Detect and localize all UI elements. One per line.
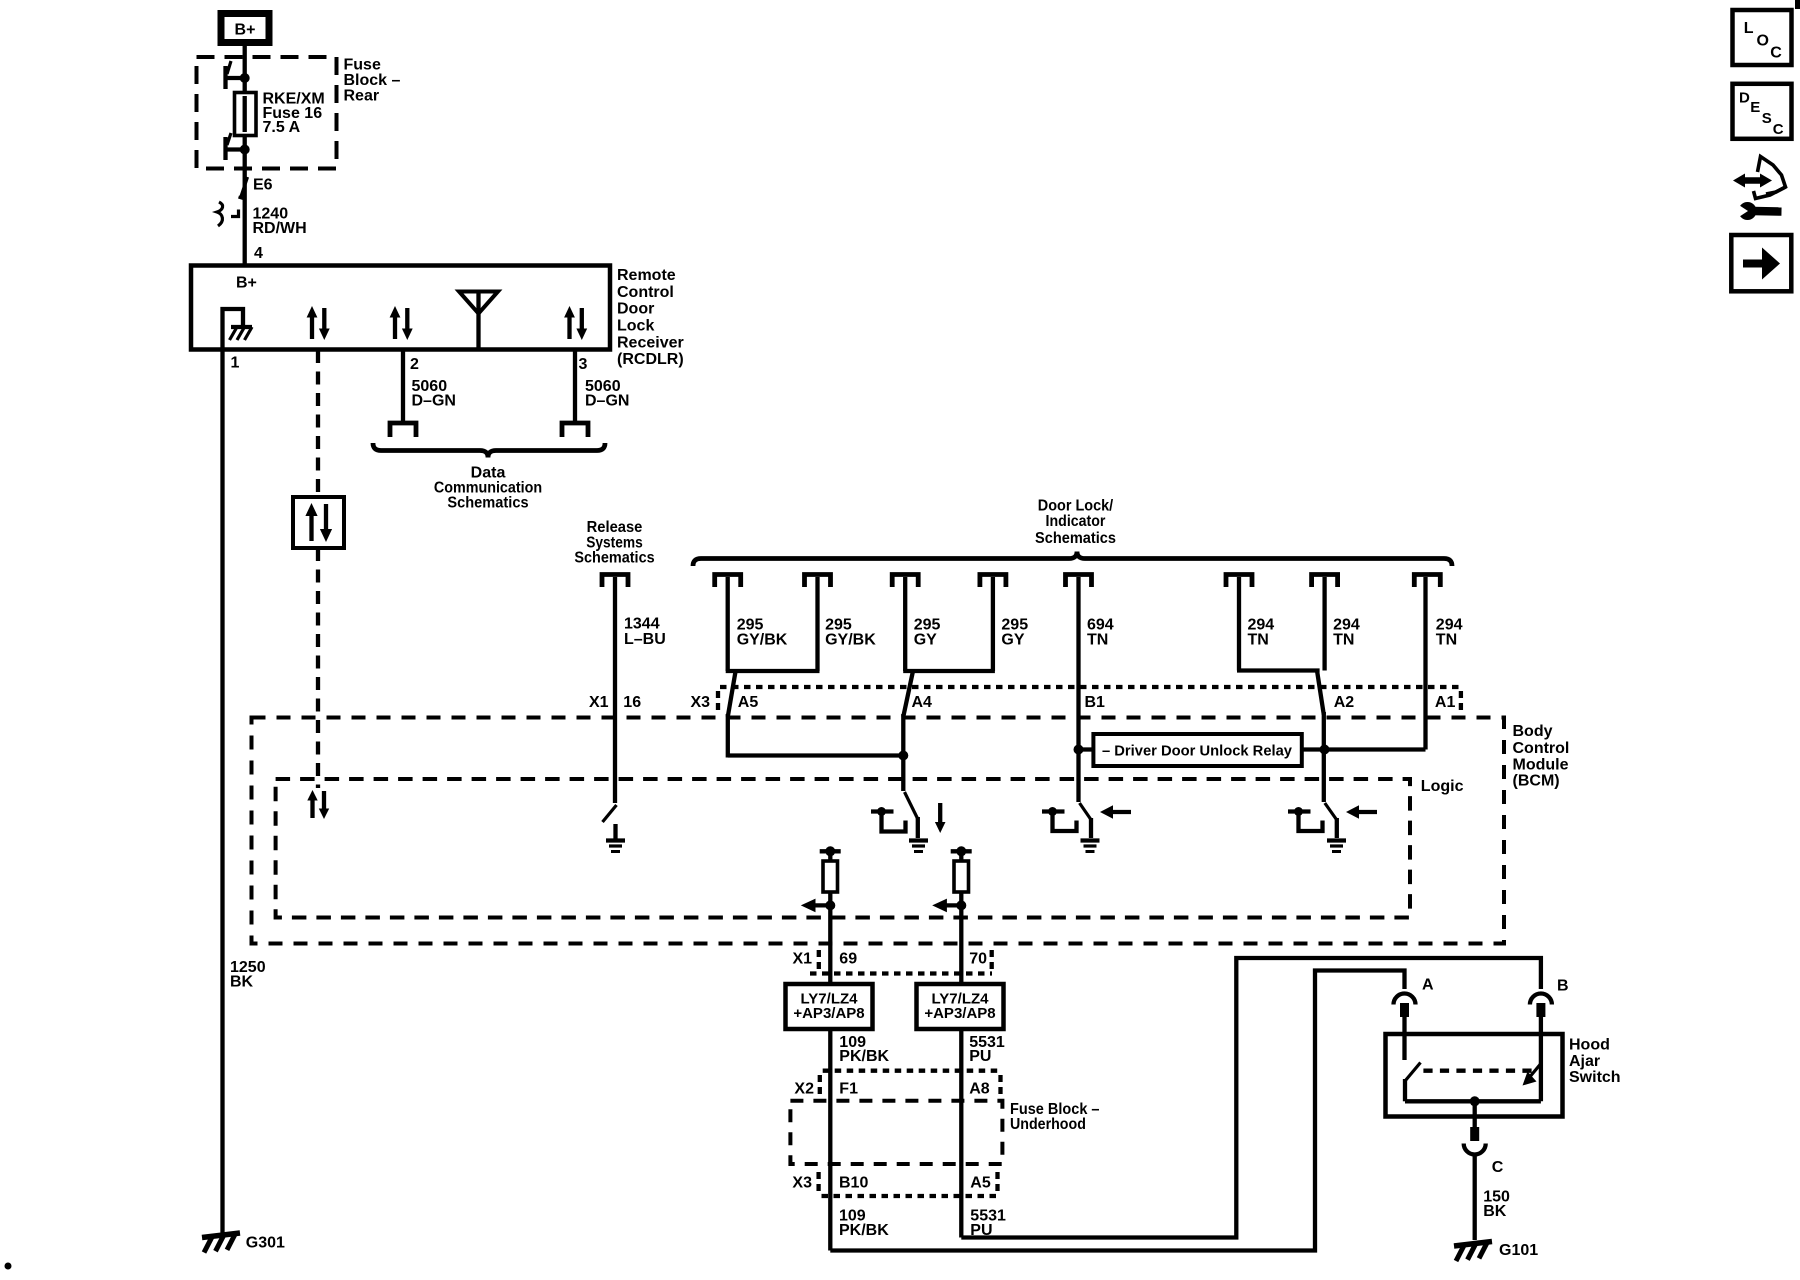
svg-text:Schematics: Schematics: [1035, 530, 1116, 547]
terminal release systems wire: [602, 575, 628, 588]
fuse RKE/XM body: [235, 78, 257, 150]
output arrow at R1: [801, 899, 836, 913]
switch blade A: [1405, 1063, 1421, 1102]
svg-text:C: C: [1492, 1159, 1504, 1176]
svg-text:Door Lock/: Door Lock/: [1038, 497, 1114, 514]
wire B1 to relay and switch: [1076, 750, 1080, 803]
op module U1 RCDLR box: [191, 266, 610, 350]
svg-text:L: L: [1744, 20, 1754, 37]
wire RCDLR pin 2: [401, 350, 405, 421]
wire label 294 TN (first): [1248, 617, 1275, 649]
svg-text:GY/BK: GY/BK: [737, 632, 788, 649]
svg-text:1: 1: [231, 355, 240, 372]
pin A5 label: [738, 694, 759, 711]
pin A2 label: [1334, 694, 1355, 711]
connector X1 bottom row labels: [793, 951, 988, 968]
dashed logic wire from RCDLR: [316, 350, 320, 497]
terminal 5 (B1 wire): [1066, 575, 1092, 588]
terminal at pin 3 wire: [562, 423, 588, 437]
connector X3 bottom row labels: [792, 1175, 990, 1192]
svg-text:Control: Control: [617, 284, 674, 301]
page corner dot: [5, 1263, 12, 1270]
svg-text:(BCM): (BCM): [1513, 772, 1560, 789]
svg-text:GY: GY: [914, 632, 937, 649]
svg-text:PU: PU: [969, 1048, 991, 1065]
svg-text:4: 4: [254, 245, 263, 262]
switch mechanical link dashed: [1423, 1069, 1532, 1073]
svg-text:X3: X3: [691, 694, 711, 711]
svg-text:70: 70: [969, 951, 987, 968]
svg-text:Fuse: Fuse: [344, 57, 381, 74]
svg-text:GY/BK: GY/BK: [825, 632, 876, 649]
pin B1 label: [1085, 694, 1106, 711]
svg-text:Block –: Block –: [344, 72, 401, 89]
svg-text:Module: Module: [1513, 757, 1569, 774]
jog into BCM pin A2: [1317, 671, 1324, 752]
svg-text:X1: X1: [793, 951, 813, 968]
label Door Lock / Indicator Schematics: [1035, 497, 1116, 547]
svg-text:Schematics: Schematics: [574, 549, 654, 566]
brace for door lock indicator: [693, 552, 1452, 567]
wire label 294 TN (third): [1436, 617, 1463, 649]
wire A5 to A4 inside BCM: [728, 753, 904, 757]
svg-text:7.5 A: 7.5 A: [263, 119, 301, 136]
svg-text:E: E: [1750, 99, 1760, 116]
wire pin 1 to G301: [220, 350, 224, 1237]
pin 2 label: [410, 356, 419, 373]
brace for data communication: [373, 443, 605, 458]
switch contact B lead: [1539, 1017, 1543, 1101]
lock/unlock arrows symbol 1: [307, 306, 330, 340]
merge wire of 295 pair one: [726, 669, 820, 673]
pin C terminal arc: [1464, 1127, 1504, 1176]
label Body Control Module (BCM): [1513, 723, 1570, 789]
boxed lock/unlock arrows symbol: [293, 497, 344, 548]
svg-text:F1: F1: [839, 1081, 858, 1098]
wire RCDLR pin 3: [573, 350, 577, 421]
resistor R2: [954, 851, 969, 985]
wire label 295 GY (first): [914, 617, 941, 649]
hood ajar switch S1 box: [1386, 1034, 1563, 1117]
option box LY7/LZ4 +AP3/AP8 (right): [917, 984, 1004, 1029]
switch common bar: [1405, 1099, 1541, 1103]
svg-text:Receiver: Receiver: [617, 334, 684, 351]
junction dot B1/relay: [1074, 745, 1084, 755]
terminal 3 (A4 wire): [892, 575, 918, 588]
svg-text:B10: B10: [839, 1175, 868, 1192]
svg-text:Logic: Logic: [1421, 778, 1464, 795]
pin A1 label: [1435, 694, 1456, 711]
wire A2 down to switch: [1322, 750, 1326, 803]
wire label 1240 RD/WH: [253, 206, 307, 237]
wire label 1344 L-BU: [624, 616, 666, 649]
svg-text:X3: X3: [792, 1175, 812, 1192]
wire 109 PK/BK vertical: [828, 1029, 832, 1251]
signal ground at B1 switch: [1081, 841, 1100, 852]
icon LOC box: [1733, 10, 1792, 65]
connector X2 row dashed line: [823, 1069, 1001, 1073]
lock/unlock arrows inside BCM logic: [307, 790, 329, 819]
coil driver hook at A4 switch: [871, 807, 906, 832]
svg-text:E6: E6: [253, 176, 273, 193]
svg-text:Remote: Remote: [617, 267, 676, 284]
svg-text:PK/BK: PK/BK: [839, 1222, 889, 1239]
coil driver hook at A2 switch: [1288, 807, 1323, 831]
svg-text:TN: TN: [1087, 632, 1108, 649]
svg-text:A5: A5: [970, 1175, 991, 1192]
svg-text:TN: TN: [1248, 632, 1269, 649]
svg-text:BK: BK: [230, 974, 254, 991]
resistor R1 top tap: [820, 846, 841, 856]
wire 5531 PU lower label: [970, 1207, 1006, 1239]
connector X1 bottom row dashed line: [810, 971, 992, 975]
label Hood Ajar Switch: [1569, 1037, 1621, 1087]
antenna symbol: [459, 292, 498, 351]
connector X3 row dashed line: [720, 685, 1462, 689]
svg-text:Indicator: Indicator: [1046, 513, 1106, 530]
junction dot A5/A4: [898, 751, 908, 761]
svg-text:A2: A2: [1334, 694, 1355, 711]
label Fuse Block - Rear: [344, 57, 401, 105]
svg-text:Lock: Lock: [617, 318, 654, 335]
connector X2 row labels: [794, 1081, 989, 1098]
connector E6 tick on wire: [239, 177, 248, 199]
svg-text:2: 2: [410, 356, 419, 373]
connector X1 bottom separator right: [990, 950, 994, 971]
relay K1 driver door unlock relay box: [1093, 734, 1301, 766]
label Remote Control Door Lock Receiver (RCDLR): [617, 267, 684, 368]
node B+ label inside RCDLR: [236, 274, 257, 291]
svg-text:(RCDLR): (RCDLR): [617, 351, 684, 368]
pin B terminal arc: [1530, 978, 1569, 1017]
connector X1 bottom separator left: [817, 950, 821, 971]
jog into BCM pin A5: [728, 671, 736, 758]
wire 1344 L-BU: [613, 577, 617, 803]
svg-text:L–BU: L–BU: [624, 631, 666, 648]
svg-text:A: A: [1422, 976, 1434, 993]
fuse top contact clip: [224, 61, 250, 89]
svg-text:D–GN: D–GN: [585, 393, 629, 410]
driver door switch blade (A4): [905, 792, 918, 838]
resistor R1: [823, 851, 838, 985]
terminal 8 (A1 wire): [1414, 575, 1440, 588]
battery feed B+ terminal box: [221, 14, 269, 43]
wire label 694 TN: [1087, 617, 1114, 649]
wire 109 PK/BK lower label: [839, 1207, 889, 1239]
svg-text:D–GN: D–GN: [412, 393, 456, 410]
wire label 295 GY (second): [1001, 617, 1028, 649]
inline connector squiggle symbol: [217, 202, 239, 226]
wire 5531 PU vertical: [959, 1029, 963, 1238]
wire 295 GY (second): [991, 577, 995, 671]
lock/unlock arrows symbol 2: [390, 306, 413, 340]
svg-text:Body: Body: [1513, 723, 1553, 740]
icon DESC box: [1733, 84, 1792, 139]
relay lead right to A2 and A1: [1302, 747, 1426, 751]
svg-text:TN: TN: [1436, 632, 1457, 649]
signal ground at A4 switch: [909, 841, 928, 852]
wire label 5060 D-GN (pin 3): [585, 378, 629, 410]
icon double arrow with wrench: [1733, 157, 1786, 221]
label E6: [253, 176, 273, 193]
fuse block rear dashed box: [197, 57, 337, 169]
svg-text:A1: A1: [1435, 694, 1456, 711]
wire 1240 RD/WH from fuse to RCDLR pin 4: [243, 150, 247, 267]
switch blade for release output: [603, 805, 617, 822]
signal ground for release output: [606, 824, 625, 852]
wire 5531 PU upper label: [969, 1034, 1005, 1065]
terminal 7: [1312, 575, 1338, 588]
connector X3 bottom separator right: [995, 1172, 999, 1193]
wire 295 GY/BK (second): [815, 577, 819, 671]
terminal 4: [980, 575, 1006, 588]
svg-text:BK: BK: [1483, 1203, 1507, 1220]
wire label 150 BK: [1483, 1189, 1510, 1221]
fuse block underhood dashed box: [790, 1101, 1002, 1164]
fuse bottom contact clip: [224, 133, 250, 160]
merge wire of 294 pair: [1237, 668, 1320, 672]
wire 294 TN (third, A1): [1423, 577, 1427, 750]
wire 109 PK/BK upper label: [839, 1034, 889, 1065]
svg-text:A4: A4: [912, 694, 933, 711]
wire label 295 GY/BK (second): [825, 617, 876, 649]
ground G101: [1454, 1242, 1538, 1262]
svg-text:Schematics: Schematics: [447, 495, 528, 512]
fuse value label RKE/XM Fuse 16 7.5 A: [263, 91, 325, 136]
jog into BCM pin A4: [903, 671, 913, 717]
page corner mark top right: [1795, 0, 1800, 9]
svg-text:S: S: [1762, 110, 1772, 127]
option box LY7/LZ4 +AP3/AP8 (left): [786, 984, 873, 1029]
coil driver hook at B1 switch: [1042, 807, 1077, 831]
label Fuse Block - Underhood: [1010, 1101, 1100, 1133]
connector X2 separator left: [818, 1075, 822, 1096]
svg-text:RD/WH: RD/WH: [253, 220, 307, 237]
connector X3 separator left: [716, 691, 720, 712]
svg-text:+AP3/AP8: +AP3/AP8: [924, 1005, 995, 1022]
terminal at pin 2 wire: [390, 423, 416, 437]
svg-text:Switch: Switch: [1569, 1069, 1621, 1086]
svg-text:Ajar: Ajar: [1569, 1053, 1600, 1070]
pin A terminal arc: [1394, 976, 1435, 1017]
junction dot relay/A2: [1320, 745, 1330, 755]
svg-text:PK/BK: PK/BK: [839, 1048, 889, 1065]
svg-text:+AP3/AP8: +AP3/AP8: [793, 1005, 864, 1022]
svg-text:A5: A5: [738, 694, 759, 711]
actuation left arrow at B1 switch: [1100, 805, 1131, 818]
terminal 2: [805, 575, 831, 588]
terminal 1 (A5 wire): [715, 575, 741, 588]
svg-text:C: C: [1773, 121, 1784, 138]
svg-text:TN: TN: [1333, 632, 1354, 649]
wire 294 TN (second): [1322, 577, 1326, 671]
output arrow at R2: [932, 899, 966, 913]
BCM dashed box: [252, 718, 1505, 944]
svg-text:C: C: [1770, 45, 1782, 62]
connector X3 label: [691, 694, 711, 711]
connector X1 pin 16 labels: [589, 694, 641, 711]
wire 109 PK/BK run to hood switch A: [830, 971, 1404, 1251]
svg-text:X2: X2: [794, 1081, 814, 1098]
wire label 5060 D-GN (pin 2): [412, 378, 456, 410]
pin 1 label: [231, 355, 240, 372]
ground G301: [202, 1233, 285, 1253]
svg-text:– Driver Door Unlock Relay: – Driver Door Unlock Relay: [1102, 743, 1293, 760]
connector X2 separator right: [998, 1075, 1002, 1096]
merge wire of 295 GY pair: [903, 669, 995, 673]
svg-text:Hood: Hood: [1569, 1037, 1610, 1054]
svg-text:B: B: [1557, 978, 1569, 995]
svg-text:G101: G101: [1499, 1242, 1538, 1259]
label Release Systems Schematics: [574, 519, 654, 566]
resistor R2 top tap: [951, 846, 972, 856]
wire from B+ to fuse: [243, 44, 247, 78]
svg-text:A8: A8: [969, 1081, 990, 1098]
actuation left arrow at A2 switch: [1346, 805, 1377, 818]
connector X3 separator right: [1459, 691, 1463, 712]
pin 4 label: [254, 245, 263, 262]
driver door switch blade (B1): [1080, 803, 1092, 838]
wire common to pin C: [1473, 1101, 1477, 1127]
lock/unlock arrows symbol 3: [564, 306, 587, 340]
svg-text:B+: B+: [235, 22, 256, 39]
svg-text:X1: X1: [589, 694, 609, 711]
svg-text:Underhood: Underhood: [1010, 1116, 1086, 1133]
icon next arrow box: [1731, 235, 1791, 291]
svg-text:B1: B1: [1085, 694, 1106, 711]
wire 694 TN: [1076, 577, 1080, 750]
switch blade B with arrow: [1523, 1064, 1541, 1086]
svg-text:G301: G301: [246, 1235, 285, 1252]
switch contact A lead: [1402, 1017, 1406, 1060]
wire A4 down to driver switch: [901, 714, 905, 791]
signal ground at A2 switch: [1327, 841, 1346, 852]
wire label 295 GY/BK (first): [737, 617, 788, 649]
wire 294 TN (first): [1237, 577, 1241, 671]
svg-text:O: O: [1757, 33, 1769, 50]
driver door switch blade (A2): [1325, 803, 1337, 838]
svg-text:D: D: [1739, 90, 1750, 107]
label Logic: [1421, 778, 1464, 795]
connector X3 bottom row dashed line: [822, 1194, 998, 1198]
wire label 294 TN (second): [1333, 617, 1360, 649]
svg-text:Control: Control: [1513, 740, 1570, 757]
junction dot on common bar: [1470, 1096, 1480, 1106]
svg-text:1344: 1344: [624, 616, 660, 633]
pin A4 label: [912, 694, 933, 711]
svg-text:Rear: Rear: [344, 88, 380, 105]
svg-text:3: 3: [579, 356, 588, 373]
wire 295 GY (first): [903, 577, 907, 671]
pin 3 label: [579, 356, 588, 373]
connector X3 bottom separator left: [816, 1172, 820, 1193]
dashed logic wire continues into BCM: [316, 548, 320, 788]
svg-text:16: 16: [623, 694, 641, 711]
internal ground symbol at pin 1: [223, 309, 253, 348]
svg-text:GY: GY: [1001, 632, 1024, 649]
wire 5531 PU run to hood switch B: [961, 958, 1541, 1238]
svg-text:B+: B+: [236, 274, 257, 291]
svg-text:69: 69: [839, 951, 857, 968]
logic dashed box: [276, 779, 1410, 918]
relay lead left: [1079, 747, 1094, 751]
terminal 6 (A2 wire): [1226, 575, 1252, 588]
wire 150 BK: [1473, 1155, 1477, 1241]
actuation down arrow at A4 switch: [935, 803, 946, 833]
wire 295 GY/BK (first): [726, 577, 730, 671]
svg-text:Door: Door: [617, 301, 654, 318]
wire 1250 BK label: [230, 959, 266, 991]
label Data Communication Schematics: [434, 464, 542, 511]
